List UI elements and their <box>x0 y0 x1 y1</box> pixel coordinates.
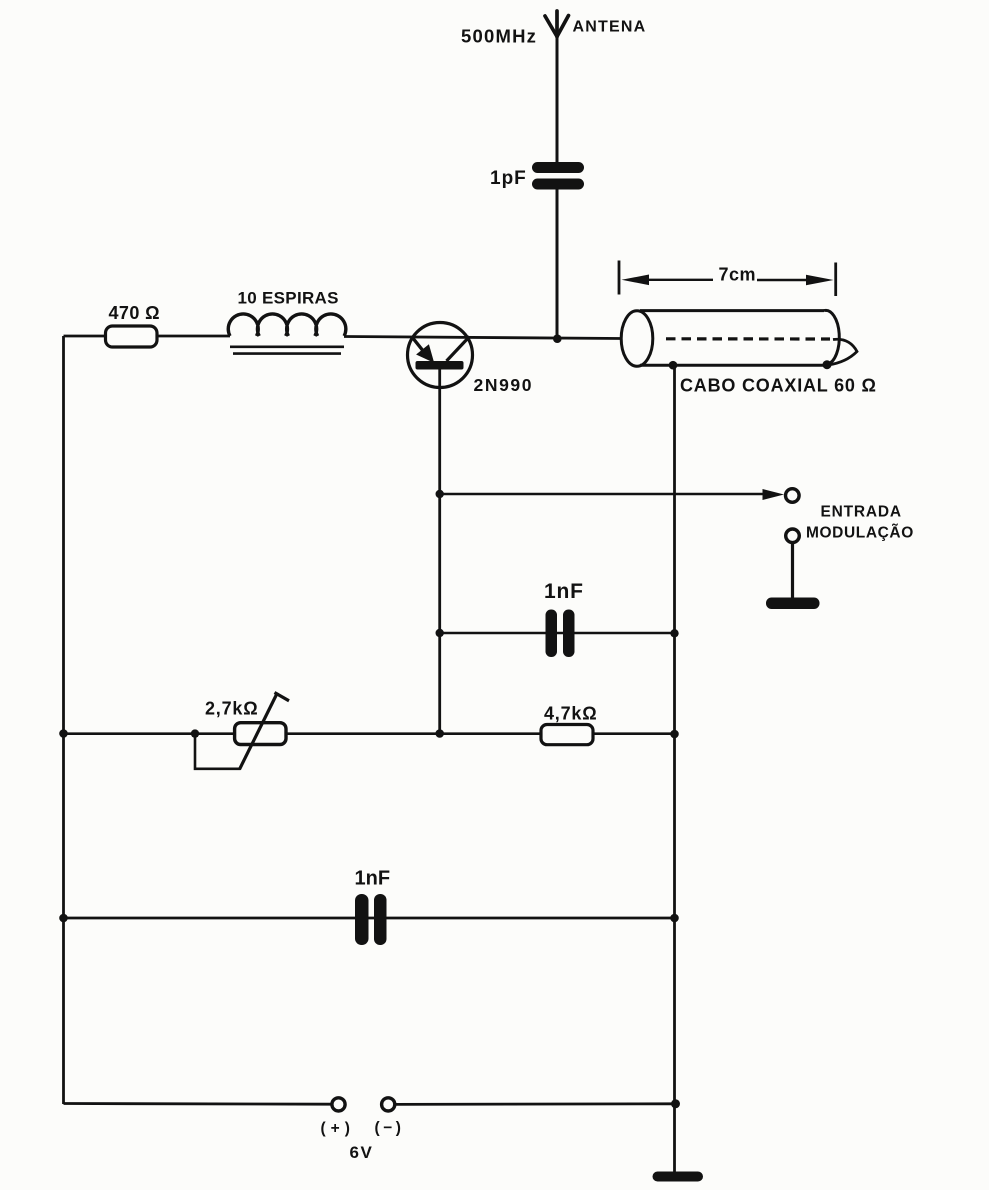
capacitor C3 1nF plates <box>355 894 369 945</box>
arrowhead modulation <box>763 489 785 500</box>
resistor R3 4,7kΩ body <box>541 725 593 745</box>
terminal circle mod bottom <box>786 529 800 543</box>
terminal circle mod top <box>786 489 800 503</box>
node bottom right <box>671 1099 680 1108</box>
wire left vertical rail <box>62 336 65 1104</box>
terminal battery - <box>382 1098 395 1111</box>
node base bottom <box>435 729 444 738</box>
svg-text:1nF: 1nF <box>544 580 584 603</box>
svg-text:1nF: 1nF <box>355 868 391 890</box>
antenna <box>545 11 569 37</box>
node row left <box>59 729 68 738</box>
svg-text:7cm: 7cm <box>719 265 757 285</box>
node wiper <box>191 729 199 737</box>
svg-text:(+): (+) <box>321 1120 355 1137</box>
svg-text:10 ESPIRAS: 10 ESPIRAS <box>238 289 339 308</box>
transistor Q1 collector <box>447 337 470 362</box>
wire battery row right <box>396 1102 676 1105</box>
svg-text:1pF: 1pF <box>490 168 527 189</box>
wire 1nF lower row <box>64 917 675 920</box>
svg-text:2,7kΩ: 2,7kΩ <box>205 699 258 719</box>
node A junction <box>553 334 562 343</box>
wire mod ground lead <box>791 544 794 600</box>
wire trimmer wiper return <box>195 734 240 769</box>
svg-text:CABO COAXIAL 60 Ω: CABO COAXIAL 60 Ω <box>680 376 877 396</box>
terminal battery + <box>332 1098 345 1111</box>
wire top row left <box>64 335 231 338</box>
inductor core lines <box>230 345 344 348</box>
transistor Q1 base bar <box>416 361 464 370</box>
transistor Q1 emitter (arrow) <box>412 337 424 352</box>
svg-text:(−): (−) <box>375 1120 405 1137</box>
coax tip loop <box>828 339 857 365</box>
wire resistor row <box>64 732 675 735</box>
dimension 7cm arrows <box>646 279 713 281</box>
wire base lead down <box>438 369 441 734</box>
coax dashed axis <box>666 337 830 340</box>
svg-text:ENTRADA: ENTRADA <box>821 504 902 521</box>
svg-text:4,7kΩ: 4,7kΩ <box>544 704 597 724</box>
wire antenna to C1 <box>556 35 559 163</box>
node row right <box>670 730 679 739</box>
node C2 left <box>436 629 444 637</box>
dimension 7cm ticks <box>618 261 621 295</box>
inductor L1 coil <box>228 314 346 336</box>
wire top row right (through transistor) <box>344 337 622 339</box>
node C2 right <box>670 629 678 637</box>
resistor R1 470Ω <box>106 326 158 347</box>
svg-text:470 Ω: 470 Ω <box>109 303 160 323</box>
svg-text:6V: 6V <box>350 1143 374 1162</box>
coax cable body <box>621 310 839 366</box>
ground (modulation) <box>766 598 820 610</box>
svg-text:2N990: 2N990 <box>474 375 534 395</box>
wire C1 to node A <box>556 189 559 339</box>
node base/mod junction <box>436 490 444 498</box>
ground (bottom right) <box>653 1172 704 1182</box>
wire 1nF upper row <box>440 632 675 635</box>
trimmer R2 tick <box>275 693 290 701</box>
trimmer R2 arrow diagonal <box>239 693 277 770</box>
trimmer R2 2,7kΩ body <box>235 723 286 745</box>
svg-text:500MHz: 500MHz <box>461 26 537 47</box>
wire modulation row <box>440 493 766 496</box>
node C3 left <box>59 914 68 923</box>
wire right vertical rail <box>673 365 676 1172</box>
transistor Q1 body <box>408 323 473 388</box>
node coax shield left <box>669 361 678 370</box>
wire battery row left <box>64 1102 332 1105</box>
svg-text:MODULAÇÃO: MODULAÇÃO <box>806 524 914 542</box>
node coax shield right <box>823 360 832 369</box>
capacitor C2 1nF plates <box>546 610 558 658</box>
node C3 right <box>670 914 679 923</box>
svg-text:ANTENA: ANTENA <box>573 19 647 36</box>
capacitor C1 1pF <box>532 162 584 190</box>
